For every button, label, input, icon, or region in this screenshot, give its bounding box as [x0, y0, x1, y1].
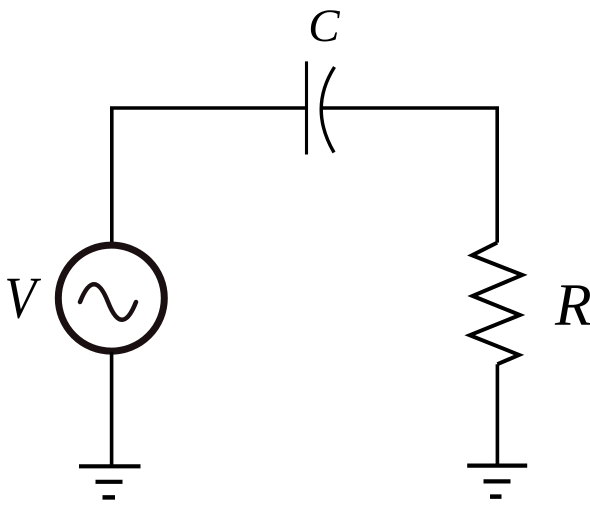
svg-text:R: R	[554, 272, 590, 338]
ground (left) bar 3	[103, 495, 116, 500]
ac voltage source V sine wave	[80, 284, 136, 320]
ground (right) bar 1	[467, 464, 527, 468]
ground (right) bar 2	[484, 479, 511, 483]
capacitor C curved plate	[321, 67, 334, 153]
svg-text:C: C	[308, 0, 340, 52]
ground (left) bar 1	[79, 464, 141, 468]
wire source bottom	[110, 352, 114, 466]
svg-text:V: V	[4, 265, 41, 331]
wire top-left: from capacitor left plate to top-left corner, down to source	[112, 108, 306, 244]
capacitor C left plate	[305, 61, 308, 154]
resistor R zigzag	[470, 243, 523, 365]
wire top-right: from capacitor arc to top-right corner, down to resistor	[322, 108, 497, 243]
ac voltage source V circle	[58, 245, 164, 351]
ground (right) bar 3	[490, 494, 502, 499]
ground (left) bar 2	[96, 480, 123, 484]
wire resistor bottom	[496, 364, 500, 465]
